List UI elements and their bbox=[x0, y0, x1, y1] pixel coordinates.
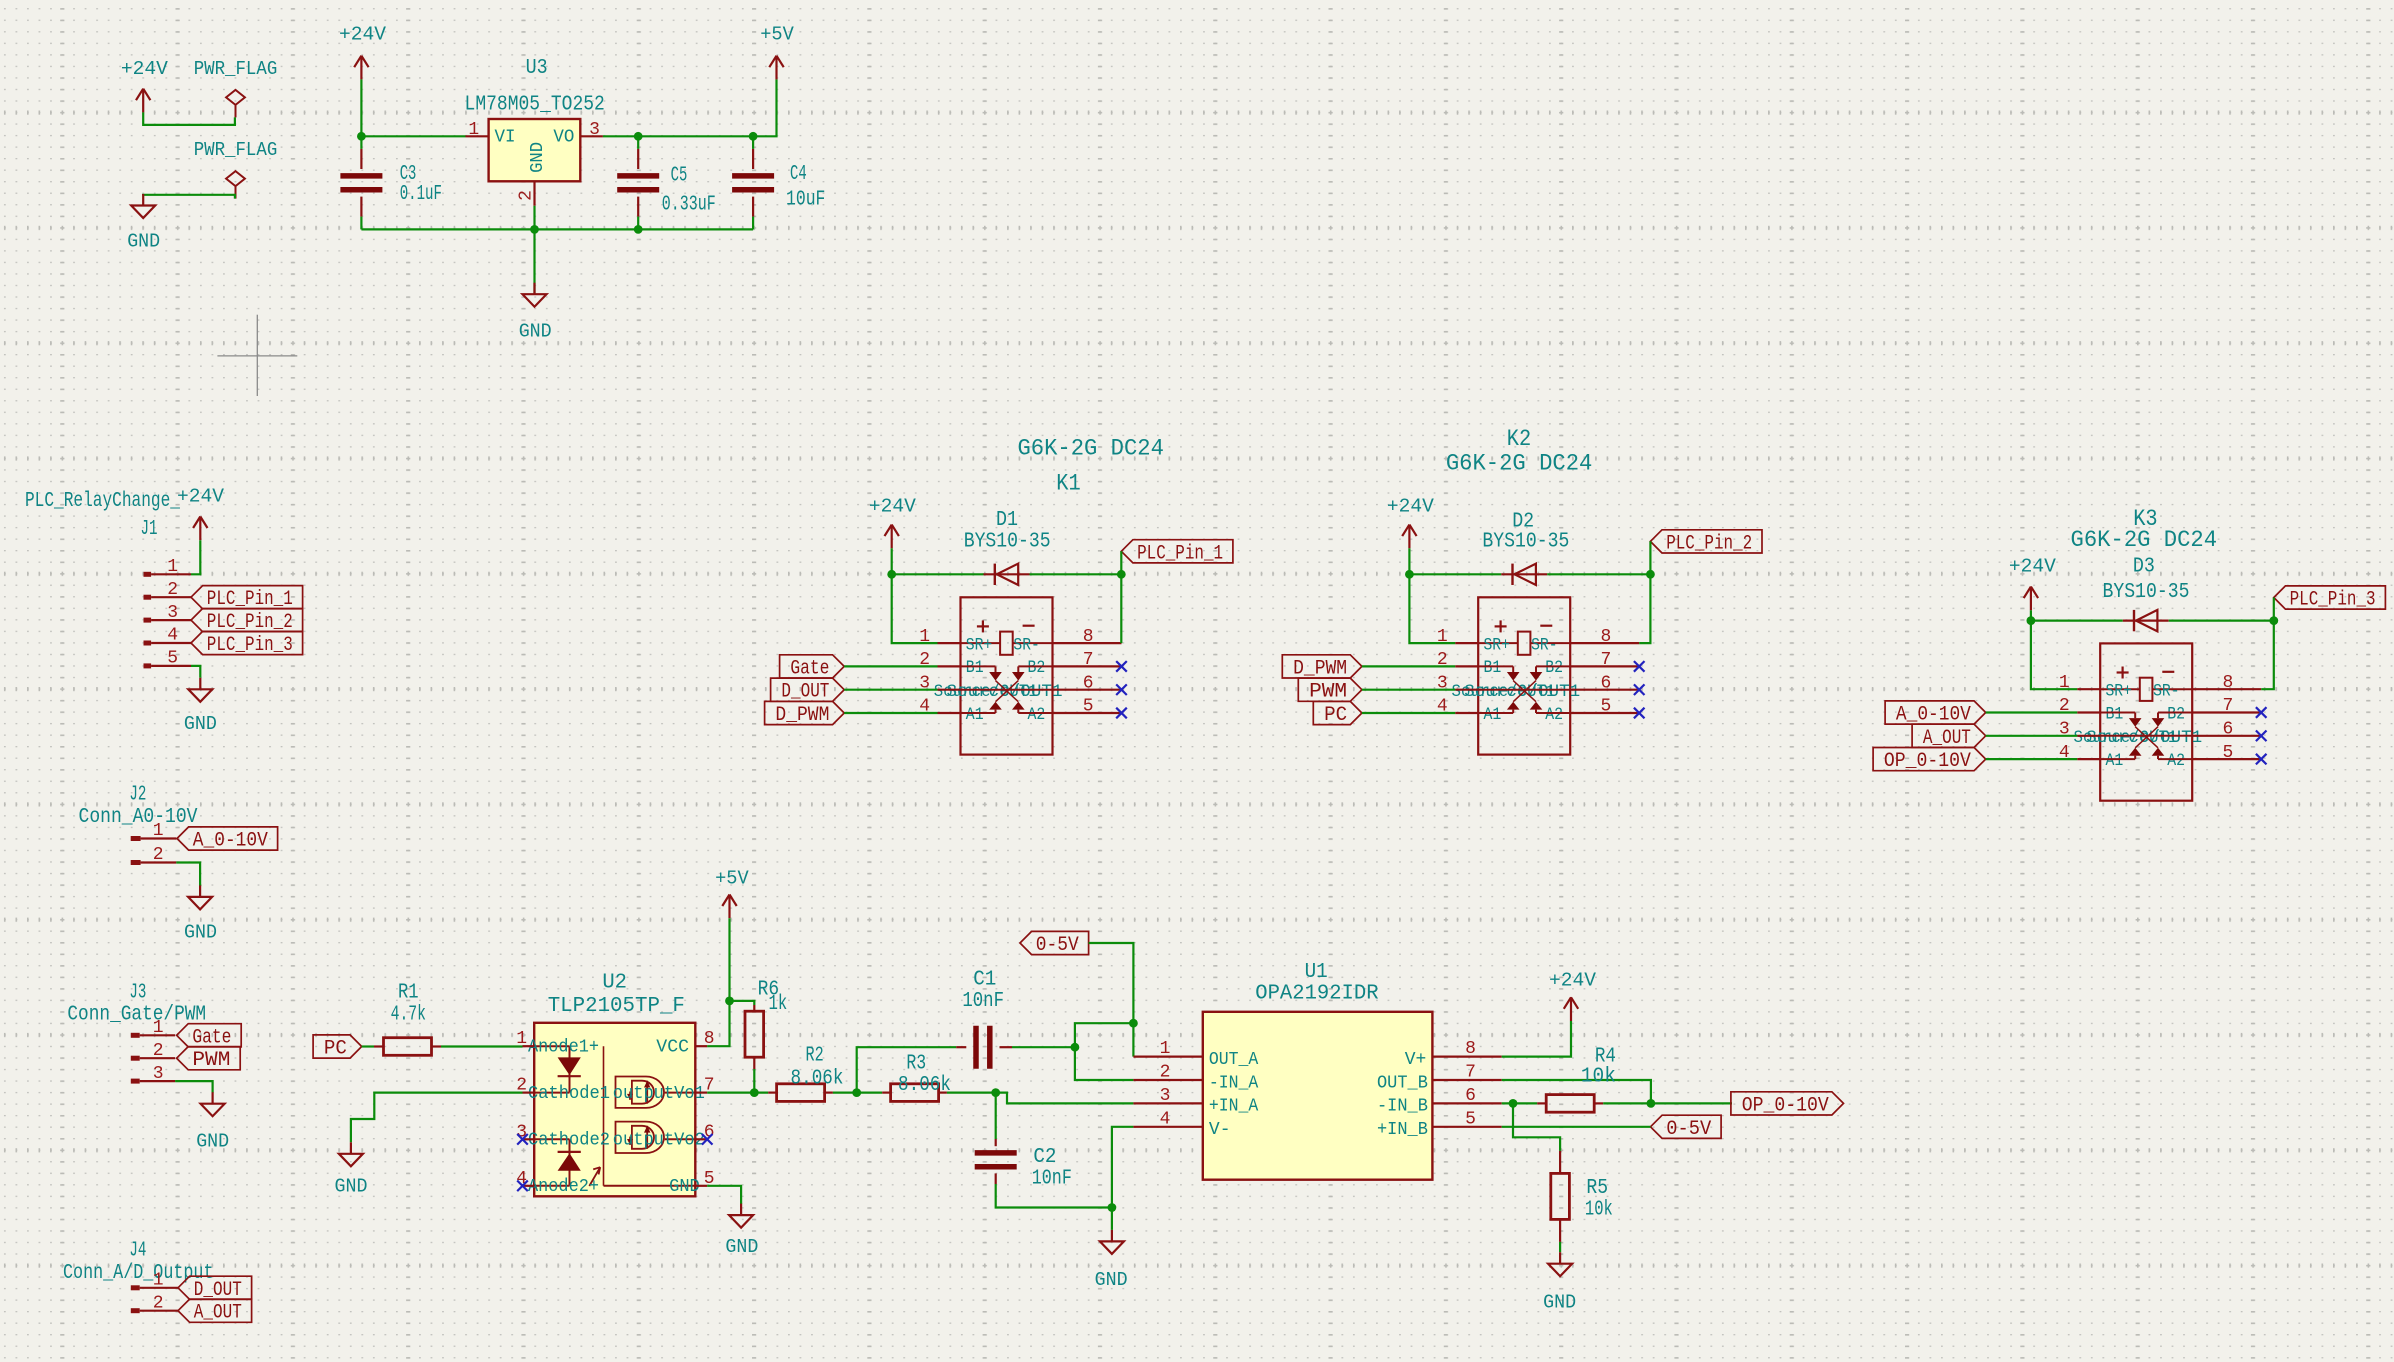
node K2 right junction bbox=[1646, 570, 1655, 579]
regulator U3 LM78M05_TO252 bbox=[465, 57, 605, 206]
svg-text:PWR_FLAG: PWR_FLAG bbox=[194, 139, 278, 161]
label D_PWM (K2) bbox=[1282, 655, 1362, 681]
svg-text:U2: U2 bbox=[602, 972, 627, 995]
K1 reference and value text bbox=[1017, 435, 1164, 496]
svg-text:A1: A1 bbox=[1484, 705, 1502, 725]
svg-text:1: 1 bbox=[468, 120, 479, 140]
svg-text:R5: R5 bbox=[1586, 1177, 1608, 1200]
power symbol +5V (U2/R6) bbox=[715, 868, 749, 919]
wire PC to R1 bbox=[362, 1045, 374, 1047]
svg-text:7: 7 bbox=[1083, 650, 1094, 670]
svg-text:C4: C4 bbox=[790, 163, 807, 186]
svg-text:OPA2192IDR: OPA2192IDR bbox=[1255, 982, 1379, 1005]
svg-text:1: 1 bbox=[153, 1271, 164, 1291]
svg-text:D_PWM: D_PWM bbox=[1293, 657, 1347, 680]
svg-text:+24V: +24V bbox=[869, 495, 916, 517]
svg-text:GND: GND bbox=[528, 142, 548, 173]
ground GND (J3) bbox=[196, 1092, 229, 1152]
svg-text:PC: PC bbox=[1324, 704, 1347, 727]
resistor R1 4.7k bbox=[374, 981, 441, 1055]
svg-text:8: 8 bbox=[1465, 1039, 1476, 1059]
svg-text:5: 5 bbox=[1601, 697, 1612, 717]
power symbol +24V (K1) bbox=[869, 495, 916, 548]
svg-text:OP_0-10V: OP_0-10V bbox=[1884, 750, 1971, 773]
svg-text:+24V: +24V bbox=[339, 24, 386, 46]
resistor R4 10k bbox=[1537, 1045, 1616, 1112]
wire R1 to U2 pin 1 bbox=[441, 1045, 523, 1047]
svg-text:GND: GND bbox=[1543, 1292, 1576, 1314]
label A_OUT (K3) bbox=[1912, 724, 1986, 750]
node K2 left junction bbox=[1405, 570, 1414, 579]
svg-text:SR+: SR+ bbox=[2106, 682, 2132, 702]
wire OUT_B loop to -IN_B node bbox=[1502, 1080, 1651, 1103]
label PLC_Pin_2 (K2) bbox=[1650, 530, 1762, 556]
svg-text:J4: J4 bbox=[129, 1240, 146, 1263]
svg-text:2: 2 bbox=[153, 1293, 164, 1313]
wire +5V down to U2 VCC bbox=[707, 918, 729, 1046]
label PC (K2) bbox=[1313, 701, 1362, 727]
no-connect U2 pin 4 bbox=[517, 1181, 528, 1192]
svg-text:+24V: +24V bbox=[1387, 495, 1434, 517]
svg-text:D3: D3 bbox=[2133, 556, 2155, 579]
wire PLC_Pin_2 down to K2 pin 8 bbox=[1639, 541, 1650, 643]
svg-text:8.06k: 8.06k bbox=[898, 1074, 951, 1097]
svg-text:GND: GND bbox=[725, 1236, 758, 1258]
svg-text:1: 1 bbox=[153, 821, 164, 841]
wire 0-5V label to OUT_A bbox=[1089, 943, 1134, 1057]
svg-text:PLC_Pin_2: PLC_Pin_2 bbox=[1666, 532, 1752, 555]
svg-text:Conn_A/D_Output: Conn_A/D_Output bbox=[63, 1262, 214, 1285]
wire PLC_Pin_1 down to K1 pin 8 bbox=[1120, 551, 1122, 643]
relay K1 G6K-2G DC24 (pins 1-8) bbox=[919, 597, 1127, 754]
svg-text:A1: A1 bbox=[966, 705, 984, 725]
label Gate (J3) bbox=[177, 1024, 242, 1050]
power symbol +24V (top left) bbox=[121, 58, 168, 112]
node ground bus junction C5 bbox=[634, 225, 643, 234]
capacitor C2 10nF bbox=[975, 1093, 1072, 1191]
wire K3 +24V node to D3 bbox=[2031, 619, 2123, 621]
wire D3 to PLC_Pin_3 node bbox=[2169, 619, 2274, 621]
node OUT_A T junction bbox=[1129, 1019, 1138, 1028]
svg-text:PLC_Pin_3: PLC_Pin_3 bbox=[2290, 589, 2376, 612]
wire J2 pin2 to GND bbox=[176, 863, 200, 887]
wire ground bus under U3 bbox=[361, 228, 753, 230]
node K3 right junction bbox=[2269, 616, 2278, 625]
svg-text:2: 2 bbox=[153, 845, 164, 865]
wire J1 pin5 to GND bbox=[191, 666, 200, 678]
capacitor C3 0.1uF bbox=[340, 136, 442, 229]
diode D1 BYS10-35 bbox=[964, 509, 1051, 585]
sheet origin cross bbox=[217, 315, 297, 396]
svg-text:PLC_Pin_1: PLC_Pin_1 bbox=[1137, 542, 1223, 565]
svg-text:A2: A2 bbox=[1028, 705, 1046, 725]
svg-text:Source/OUT1: Source/OUT1 bbox=[2086, 728, 2202, 748]
svg-text:GND: GND bbox=[669, 1177, 700, 1197]
svg-text:J2: J2 bbox=[129, 783, 146, 806]
wire +24V to K2 node bbox=[1408, 548, 1410, 574]
svg-text:BYS10-35: BYS10-35 bbox=[1482, 531, 1569, 554]
wire node to U3 pin 1 bbox=[361, 135, 465, 137]
svg-text:R3: R3 bbox=[906, 1053, 926, 1076]
wire K1 +24V node down to pin 1 bbox=[892, 574, 938, 643]
node V- ground junction bbox=[1108, 1203, 1117, 1212]
wire ground row to GND bbox=[1111, 1208, 1113, 1230]
svg-text:1k: 1k bbox=[769, 993, 788, 1016]
svg-text:3: 3 bbox=[589, 120, 600, 140]
svg-text:1: 1 bbox=[1160, 1039, 1171, 1059]
svg-text:outputVo2: outputVo2 bbox=[613, 1131, 705, 1151]
node C1 branch junction bbox=[852, 1088, 861, 1097]
capacitor C1 10nF bbox=[956, 969, 1012, 1069]
connector J3 Conn_Gate/PWM bbox=[67, 981, 206, 1083]
svg-text:GND: GND bbox=[335, 1176, 368, 1198]
wire +24V to K3 node bbox=[2030, 610, 2032, 620]
svg-text:Cathode1: Cathode1 bbox=[528, 1084, 610, 1104]
svg-text:7: 7 bbox=[2223, 696, 2234, 716]
svg-text:OUT_A: OUT_A bbox=[1209, 1050, 1259, 1070]
power symbol +24V (J1 pin1) bbox=[177, 486, 224, 541]
svg-text:GND: GND bbox=[127, 230, 160, 252]
svg-text:VO: VO bbox=[553, 128, 574, 148]
wire +IN_B to 0-5V bbox=[1502, 1126, 1651, 1128]
wire K1 +24V node to D1 bbox=[892, 573, 984, 575]
svg-text:GND: GND bbox=[196, 1130, 229, 1152]
power symbol +24V (K2) bbox=[1387, 495, 1434, 548]
svg-text:8: 8 bbox=[2223, 673, 2234, 693]
wire U2 pin5 to GND bbox=[707, 1186, 741, 1204]
svg-text:D1: D1 bbox=[996, 509, 1018, 532]
svg-text:Conn_Gate/PWM: Conn_Gate/PWM bbox=[67, 1004, 206, 1027]
svg-text:2: 2 bbox=[516, 190, 536, 201]
wire V- to ground row bbox=[1112, 1127, 1134, 1208]
wire R6 to signal row bbox=[753, 1069, 755, 1093]
wire U2 pin 2 to GND bbox=[351, 1093, 523, 1143]
svg-text:SR+: SR+ bbox=[1484, 636, 1510, 656]
svg-text:R2: R2 bbox=[806, 1044, 824, 1067]
svg-text:+IN_B: +IN_B bbox=[1377, 1120, 1428, 1140]
power symbol +24V (U3 input) bbox=[339, 24, 386, 80]
label PWM (J3) bbox=[177, 1047, 241, 1073]
svg-text:Anode2+: Anode2+ bbox=[528, 1177, 599, 1197]
svg-text:G6K-2G DC24: G6K-2G DC24 bbox=[1446, 450, 1593, 476]
node R4 left junction bbox=[1509, 1099, 1518, 1108]
label D_PWM (K1) bbox=[765, 701, 845, 727]
svg-text:VI: VI bbox=[495, 128, 516, 148]
svg-text:BYS10-35: BYS10-35 bbox=[2103, 581, 2190, 604]
no-connect U2 pin 3 bbox=[517, 1134, 528, 1145]
svg-text:R1: R1 bbox=[398, 981, 419, 1004]
op-amp U1 OPA2192IDR bbox=[1133, 961, 1501, 1180]
ground GND (U2 cathode1) bbox=[335, 1142, 368, 1197]
wire +24V down to node bbox=[360, 79, 362, 136]
svg-text:+IN_A: +IN_A bbox=[1209, 1097, 1259, 1117]
power symbol +5V (U3 output) bbox=[760, 24, 794, 80]
svg-text:3: 3 bbox=[1160, 1086, 1171, 1106]
label D_OUT (K1) bbox=[771, 678, 845, 704]
svg-text:B2: B2 bbox=[1545, 658, 1563, 678]
wire PC to K2 pin 4 bbox=[1362, 712, 1455, 714]
svg-text:5: 5 bbox=[1465, 1109, 1476, 1129]
svg-text:8: 8 bbox=[1601, 627, 1612, 647]
diode D3 BYS10-35 bbox=[2103, 556, 2190, 632]
label A_0-10V (J2) bbox=[177, 827, 278, 853]
connector J2 Conn_A0-10V bbox=[79, 783, 198, 865]
wire +24V to K1 node bbox=[891, 548, 893, 574]
node K3 left junction bbox=[2027, 616, 2036, 625]
svg-text:PWR_FLAG: PWR_FLAG bbox=[194, 58, 278, 80]
power symbol +24V (K3) bbox=[2009, 556, 2056, 611]
capacitor C4 10uF bbox=[732, 136, 825, 229]
node R4 right junction bbox=[1647, 1099, 1656, 1108]
wire node to U1 +IN_A bbox=[996, 1093, 1134, 1104]
svg-text:A_OUT: A_OUT bbox=[194, 1302, 242, 1325]
svg-text:C1: C1 bbox=[973, 969, 996, 992]
label Gate (K1) bbox=[780, 655, 845, 681]
svg-text:Source/OUT1: Source/OUT1 bbox=[947, 682, 1063, 702]
svg-text:V-: V- bbox=[1209, 1120, 1231, 1140]
wire PLC_Pin_3 down to K3 pin 8 bbox=[2261, 598, 2274, 690]
svg-text:A_OUT: A_OUT bbox=[1923, 727, 1971, 750]
label OP_0-10V (K3) bbox=[1873, 748, 1986, 774]
svg-text:-IN_A: -IN_A bbox=[1209, 1073, 1259, 1093]
wire D1 to PLC_Pin_1 node bbox=[1030, 573, 1122, 575]
ground GND (J2) bbox=[184, 885, 217, 943]
svg-text:Conn_A0-10V: Conn_A0-10V bbox=[79, 806, 198, 829]
svg-text:A2: A2 bbox=[1545, 705, 1563, 725]
wire -IN_B to R4 bbox=[1502, 1102, 1538, 1104]
wire R4 to OP_0-10V bbox=[1603, 1102, 1732, 1104]
wire J1 pin1 to +24V bbox=[191, 540, 200, 574]
resistor R2 8.06k bbox=[768, 1044, 843, 1101]
resistor R5 10k bbox=[1551, 1151, 1613, 1242]
svg-text:+5V: +5V bbox=[715, 868, 749, 890]
ground GND (top left) bbox=[127, 194, 160, 252]
svg-text:GND: GND bbox=[1095, 1269, 1128, 1291]
svg-text:5: 5 bbox=[2223, 743, 2234, 763]
label PLC_Pin_2 (J1) bbox=[191, 609, 303, 635]
svg-text:Gate: Gate bbox=[790, 657, 829, 680]
svg-text:OUT_B: OUT_B bbox=[1377, 1073, 1428, 1093]
svg-text:B2: B2 bbox=[1028, 658, 1046, 678]
svg-text:B1: B1 bbox=[1484, 658, 1502, 678]
node VO junction C5 bbox=[634, 132, 643, 141]
U3 pin 2 bbox=[533, 181, 535, 206]
label PLC_Pin_1 (K1) bbox=[1121, 540, 1233, 566]
label PLC_Pin_3 (J1) bbox=[191, 631, 303, 657]
svg-text:K1: K1 bbox=[1056, 471, 1080, 497]
svg-text:10nF: 10nF bbox=[962, 990, 1004, 1013]
svg-text:3: 3 bbox=[153, 1064, 164, 1084]
svg-text:SR-: SR- bbox=[1531, 636, 1557, 656]
wire C2 to ground row bbox=[996, 1184, 1112, 1208]
svg-text:10uF: 10uF bbox=[786, 188, 825, 211]
svg-text:PC: PC bbox=[324, 1038, 347, 1061]
power flag PWR_FLAG (on +24V) bbox=[194, 58, 278, 117]
svg-text:LM78M05_TO252: LM78M05_TO252 bbox=[465, 94, 605, 117]
svg-text:1: 1 bbox=[516, 1029, 527, 1049]
svg-text:8.06k: 8.06k bbox=[791, 1068, 844, 1091]
svg-text:A1: A1 bbox=[2106, 751, 2124, 771]
label D_OUT (J4) bbox=[178, 1276, 252, 1302]
svg-text:10k: 10k bbox=[1585, 1199, 1613, 1222]
svg-text:2: 2 bbox=[1160, 1063, 1171, 1083]
svg-text:5: 5 bbox=[167, 649, 178, 669]
svg-text:J3: J3 bbox=[129, 981, 146, 1004]
diode D2 BYS10-35 bbox=[1482, 510, 1569, 585]
label 0-5V (+IN_B) bbox=[1651, 1115, 1722, 1141]
wire OUT_A node to -IN_A bbox=[1075, 1023, 1134, 1080]
svg-text:C2: C2 bbox=[1033, 1146, 1056, 1169]
wire U2 pin7 to R2 bbox=[707, 1091, 768, 1093]
label PWM (K2) bbox=[1298, 678, 1362, 704]
node K1 left junction bbox=[887, 570, 896, 579]
wire R4 node down to R5 bbox=[1513, 1103, 1560, 1151]
ground GND (U2) bbox=[725, 1204, 758, 1259]
svg-text:A2: A2 bbox=[2167, 751, 2185, 771]
svg-text:4.7k: 4.7k bbox=[391, 1004, 426, 1027]
wire J3 pin3 to GND bbox=[175, 1081, 213, 1093]
svg-text:J1: J1 bbox=[141, 518, 158, 541]
svg-text:GND: GND bbox=[184, 713, 217, 735]
K3 reference and value text bbox=[2071, 506, 2218, 553]
svg-text:6: 6 bbox=[1083, 673, 1094, 693]
svg-text:PWM: PWM bbox=[1309, 681, 1347, 704]
wire ground bus to GND symbol bbox=[533, 229, 535, 293]
node K1 right junction bbox=[1117, 570, 1126, 579]
relay K2 G6K-2G DC24 (pins 1-8) bbox=[1437, 597, 1645, 754]
svg-text:PWM: PWM bbox=[192, 1049, 230, 1072]
wire K2 +24V node down to pin 1 bbox=[1409, 574, 1455, 643]
wire D_PWM to K1 pin 4 bbox=[844, 712, 937, 714]
wire R5 to GND bbox=[1559, 1242, 1561, 1252]
wire +5V node to R6 bbox=[730, 1001, 755, 1005]
wire D2 to PLC_Pin_2 node bbox=[1547, 573, 1650, 575]
svg-text:B1: B1 bbox=[966, 658, 984, 678]
svg-text:C5: C5 bbox=[671, 164, 688, 187]
svg-text:PLC_RelayChange_: PLC_RelayChange_ bbox=[25, 490, 180, 513]
svg-text:SR-: SR- bbox=[1013, 636, 1039, 656]
svg-text:2: 2 bbox=[153, 1041, 164, 1061]
ground GND (R5) bbox=[1543, 1252, 1576, 1314]
svg-text:Source/OUT1: Source/OUT1 bbox=[1464, 682, 1580, 702]
wire K2 +24V node to D2 bbox=[1409, 573, 1501, 575]
svg-text:5: 5 bbox=[1083, 697, 1094, 717]
node VI junction bbox=[357, 132, 366, 141]
svg-text:10k: 10k bbox=[1581, 1066, 1616, 1089]
svg-text:8: 8 bbox=[1083, 627, 1094, 647]
wire C1 branch up bbox=[857, 1047, 957, 1092]
wire V+ to +24V bbox=[1502, 1021, 1571, 1057]
svg-text:+24V: +24V bbox=[1549, 970, 1596, 992]
svg-text:-IN_B: -IN_B bbox=[1377, 1097, 1428, 1117]
wire A_0-10V to K3 pin 2 bbox=[1986, 711, 2078, 713]
svg-text:7: 7 bbox=[1465, 1063, 1476, 1083]
label OP_0-10V (output) bbox=[1731, 1092, 1844, 1118]
K2 reference and value text bbox=[1446, 426, 1593, 477]
svg-text:10nF: 10nF bbox=[1032, 1167, 1072, 1190]
wire A_OUT to K3 pin 3 bbox=[1986, 735, 2078, 737]
wire R3 to +IN_A node bbox=[947, 1091, 996, 1093]
wire C1 to -IN_A branch bbox=[1012, 1046, 1073, 1048]
svg-text:GND: GND bbox=[184, 922, 217, 944]
label A_OUT (J4) bbox=[178, 1299, 252, 1325]
svg-text:TLP2105TP_F: TLP2105TP_F bbox=[548, 995, 685, 1018]
svg-text:4: 4 bbox=[167, 626, 178, 646]
svg-text:0-5V: 0-5V bbox=[1666, 1118, 1711, 1141]
node C1 to -IN_A junction bbox=[1071, 1043, 1080, 1052]
ground GND (J1) bbox=[184, 678, 217, 735]
svg-text:6: 6 bbox=[704, 1122, 715, 1142]
svg-text:G6K-2G DC24: G6K-2G DC24 bbox=[1017, 435, 1164, 461]
ground GND (U1 V-) bbox=[1095, 1230, 1128, 1291]
svg-text:+5V: +5V bbox=[760, 24, 794, 46]
wire PWM to K2 pin 3 bbox=[1362, 689, 1455, 691]
svg-text:V+: V+ bbox=[1405, 1050, 1427, 1070]
svg-text:3: 3 bbox=[167, 603, 178, 623]
svg-text:U3: U3 bbox=[526, 57, 548, 80]
svg-text:2: 2 bbox=[167, 580, 178, 600]
wire PWR_FLAG to GND bbox=[143, 195, 235, 199]
svg-text:VCC: VCC bbox=[656, 1038, 689, 1058]
label PLC_Pin_3 (K3) bbox=[2274, 586, 2386, 612]
svg-text:+24V: +24V bbox=[177, 486, 224, 508]
power symbol +24V (U1 V+) bbox=[1549, 970, 1596, 1022]
wire R2 to R3 bbox=[833, 1091, 882, 1093]
svg-text:+24V: +24V bbox=[121, 58, 168, 80]
svg-text:D_PWM: D_PWM bbox=[775, 704, 829, 727]
svg-text:0.33uF: 0.33uF bbox=[662, 194, 716, 217]
wire D_PWM to K2 pin 2 bbox=[1362, 665, 1455, 667]
U3 pin 3 bbox=[580, 135, 603, 137]
wire K3 +24V node down to pin 1 bbox=[2031, 621, 2077, 690]
U3 pin 1 bbox=[466, 135, 489, 137]
svg-text:GND: GND bbox=[519, 320, 552, 342]
node +IN_A / C2 junction bbox=[991, 1088, 1000, 1097]
capacitor C5 0.33uF bbox=[617, 136, 716, 229]
svg-text:BYS10-35: BYS10-35 bbox=[964, 531, 1051, 554]
svg-text:SR-: SR- bbox=[2153, 682, 2179, 702]
optocoupler U2 TLP2105TP_F bbox=[516, 972, 714, 1197]
svg-text:K2: K2 bbox=[1507, 426, 1531, 452]
connector J1 PLC_RelayChange_ bbox=[25, 490, 191, 669]
resistor R3 8.06k bbox=[882, 1053, 951, 1102]
resistor R6 1k bbox=[745, 978, 787, 1069]
node ground bus junction pin2 bbox=[530, 225, 539, 234]
label PLC_Pin_1 (J1) bbox=[191, 586, 303, 612]
svg-text:A_0-10V: A_0-10V bbox=[193, 830, 268, 853]
wire OP_0-10V to K3 pin 4 bbox=[1986, 758, 2078, 760]
svg-text:0.1uF: 0.1uF bbox=[400, 183, 442, 206]
node R6 bottom junction bbox=[750, 1088, 759, 1097]
ground GND (U3) bbox=[519, 283, 552, 343]
label A_0-10V (K3) bbox=[1885, 701, 1986, 727]
svg-text:A_0-10V: A_0-10V bbox=[1896, 704, 1971, 727]
wire D_OUT to K1 pin 3 bbox=[844, 689, 937, 691]
svg-text:1: 1 bbox=[167, 557, 178, 577]
svg-text:SR+: SR+ bbox=[966, 636, 992, 656]
node VO junction C4 bbox=[749, 132, 758, 141]
wire +24V to PWR_FLAG bbox=[143, 112, 235, 125]
svg-text:OP_0-10V: OP_0-10V bbox=[1742, 1094, 1829, 1117]
relay K3 G6K-2G DC24 (pins 1-8) bbox=[2059, 643, 2267, 800]
svg-text:7: 7 bbox=[1601, 650, 1612, 670]
label PC (R1 input) bbox=[313, 1035, 362, 1061]
svg-text:U1: U1 bbox=[1305, 961, 1328, 984]
svg-text:Cathode2: Cathode2 bbox=[528, 1131, 610, 1151]
wire U3 pin2 to ground bus bbox=[533, 206, 535, 230]
wire Gate to K1 pin 2 bbox=[844, 665, 937, 667]
connector J4 Conn_A/D_Output bbox=[63, 1240, 214, 1314]
